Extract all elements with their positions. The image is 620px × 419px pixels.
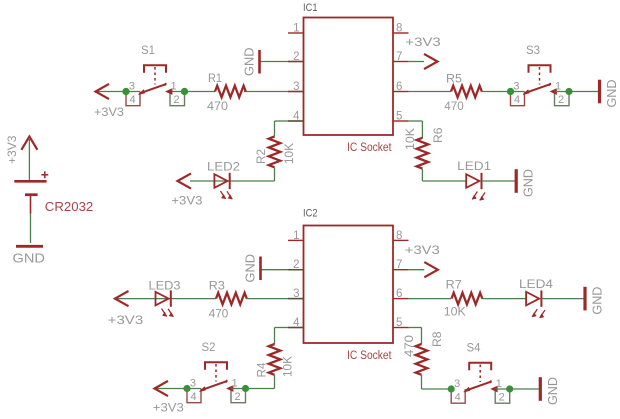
svg-text:2: 2 <box>173 94 179 106</box>
svg-text:R1: R1 <box>208 73 222 85</box>
svg-text:4: 4 <box>514 94 520 106</box>
svg-text:3: 3 <box>454 378 460 390</box>
svg-text:+3V3: +3V3 <box>405 245 440 257</box>
svg-text:+3V3: +3V3 <box>171 196 202 208</box>
svg-text:3: 3 <box>190 378 196 390</box>
svg-text:470: 470 <box>207 101 228 113</box>
svg-text:S4: S4 <box>467 343 482 355</box>
svg-text:LED3: LED3 <box>149 281 181 293</box>
svg-text:GND: GND <box>244 254 258 283</box>
svg-text:R6: R6 <box>433 128 445 144</box>
svg-text:+3V3: +3V3 <box>94 107 124 119</box>
svg-text:4: 4 <box>129 94 135 106</box>
svg-text:4: 4 <box>190 391 196 403</box>
svg-text:IC1: IC1 <box>303 2 318 14</box>
svg-text:LED2: LED2 <box>207 162 240 174</box>
svg-text:10K: 10K <box>284 143 296 164</box>
svg-text:IC2: IC2 <box>303 208 318 220</box>
svg-text:4: 4 <box>455 391 461 403</box>
svg-text:R8: R8 <box>432 332 444 348</box>
svg-text:R7: R7 <box>446 280 462 292</box>
svg-text:GND: GND <box>604 80 619 108</box>
svg-text:GND: GND <box>13 251 46 266</box>
svg-text:470: 470 <box>444 101 464 113</box>
svg-text:LED4: LED4 <box>519 279 554 291</box>
svg-text:2: 2 <box>234 391 240 403</box>
svg-text:CR2032: CR2032 <box>45 200 94 214</box>
svg-text:1: 1 <box>555 81 561 93</box>
svg-text:IC Socket: IC Socket <box>347 350 392 362</box>
svg-text:2: 2 <box>499 391 505 403</box>
svg-text:3: 3 <box>129 81 135 93</box>
svg-text:10K: 10K <box>283 356 295 377</box>
svg-text:3: 3 <box>513 81 519 93</box>
svg-text:+3V3: +3V3 <box>153 403 184 415</box>
svg-text:+3V3: +3V3 <box>7 136 19 165</box>
svg-text:S1: S1 <box>141 45 155 57</box>
svg-text:10K: 10K <box>405 128 417 150</box>
svg-text:GND: GND <box>590 287 605 315</box>
svg-text:LED1: LED1 <box>457 161 491 173</box>
svg-text:R2: R2 <box>256 149 268 164</box>
svg-text:S2: S2 <box>202 342 216 354</box>
svg-text:GND: GND <box>545 377 560 405</box>
svg-text:GND: GND <box>521 169 536 197</box>
svg-text:R5: R5 <box>446 74 462 86</box>
svg-text:R4: R4 <box>257 362 269 378</box>
svg-text:+3V3: +3V3 <box>405 37 441 49</box>
svg-text:470: 470 <box>404 335 416 357</box>
svg-text:1: 1 <box>496 378 502 390</box>
svg-text:S3: S3 <box>526 45 540 57</box>
svg-text:R3: R3 <box>209 281 225 293</box>
svg-text:10K: 10K <box>444 307 466 319</box>
svg-text:2: 2 <box>558 94 564 106</box>
svg-text:470: 470 <box>209 309 229 321</box>
svg-text:IC Socket: IC Socket <box>347 142 392 154</box>
svg-text:1: 1 <box>232 378 238 390</box>
svg-text:GND: GND <box>243 48 257 77</box>
svg-text:+3V3: +3V3 <box>108 315 144 327</box>
svg-text:1: 1 <box>171 81 177 93</box>
